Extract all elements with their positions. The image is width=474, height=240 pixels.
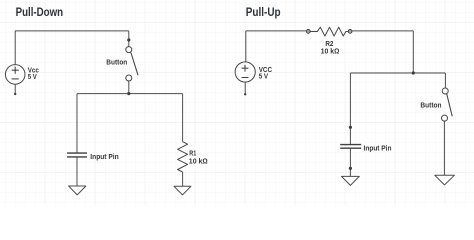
wire V1 bottom stub bbox=[14, 84, 16, 95]
wire top rail to button S1 bbox=[128, 31, 130, 47]
wire button S2 to ground bbox=[443, 121, 445, 175]
wire bus to capacitor C2 bbox=[349, 73, 351, 144]
resistor R2 bbox=[306, 27, 352, 36]
junction dot above C2 bbox=[349, 126, 352, 129]
push button S1 bbox=[126, 47, 138, 81]
capacitor C1 Input Pin bbox=[67, 153, 87, 157]
svg-text:5 V: 5 V bbox=[28, 72, 37, 81]
junction dot on right bus bbox=[412, 71, 415, 74]
junction dot on node bus bbox=[127, 92, 130, 95]
voltage source V1 Vcc bbox=[5, 65, 25, 85]
label Input Pin (right) bbox=[364, 143, 392, 152]
title Pull-Up bbox=[246, 5, 281, 19]
ground (below S2) bbox=[435, 175, 455, 185]
wire V1 to top rail bbox=[14, 31, 16, 65]
capacitor C2 Input Pin bbox=[340, 145, 361, 149]
svg-text:Input Pin: Input Pin bbox=[364, 143, 392, 152]
wire capacitor C1 to ground bbox=[76, 157, 78, 186]
svg-text:10 kΩ: 10 kΩ bbox=[321, 47, 340, 56]
svg-text:Button: Button bbox=[420, 100, 441, 109]
ground (below C1) bbox=[69, 186, 86, 195]
ground (below C2) bbox=[342, 176, 360, 185]
wire bus to button S2 bbox=[444, 73, 446, 88]
label Button (right) bbox=[420, 100, 441, 109]
label R2 10 kOhm bbox=[321, 39, 340, 55]
wire capacitor C2 to ground bbox=[349, 149, 351, 177]
node bus wire right circuit bbox=[350, 72, 445, 74]
svg-text:Pull-Down: Pull-Down bbox=[16, 5, 64, 19]
svg-text:5 V: 5 V bbox=[259, 72, 269, 81]
wire button S1 to node bus bbox=[128, 81, 130, 94]
title Pull-Down bbox=[16, 5, 64, 19]
label VCC 5 V bbox=[259, 65, 273, 80]
junction dot below C2 bbox=[349, 167, 352, 170]
push button S2 bbox=[442, 88, 453, 121]
wire resistor R1 to ground bbox=[182, 172, 184, 186]
node bus wire left circuit bbox=[77, 93, 183, 95]
wire right corner down to bus bbox=[412, 31, 414, 73]
resistor R1 bbox=[178, 142, 188, 172]
junction dot above button S1 bbox=[127, 38, 130, 41]
wire bus to resistor R1 bbox=[182, 94, 184, 142]
svg-text:Pull-Up: Pull-Up bbox=[246, 5, 281, 19]
svg-text:Button: Button bbox=[106, 58, 127, 67]
svg-text:10 kΩ: 10 kΩ bbox=[189, 156, 208, 165]
wire V2 bottom stub bbox=[244, 82, 246, 95]
wire top rail left circuit bbox=[15, 30, 129, 32]
wire bus to capacitor C1 bbox=[76, 94, 78, 153]
svg-text:Input Pin: Input Pin bbox=[90, 152, 118, 161]
label Vcc 5 V bbox=[28, 66, 39, 81]
label Input Pin (left) bbox=[90, 152, 118, 161]
wire V2 to top rail bbox=[245, 31, 247, 62]
label R1 10 kOhm bbox=[189, 149, 208, 166]
label Button (left) bbox=[106, 58, 127, 67]
wire R2 to right corner bbox=[352, 30, 413, 32]
voltage source V2 VCC bbox=[235, 62, 255, 82]
wire top rail V2 to R2 bbox=[246, 30, 307, 32]
ground (below R1) bbox=[174, 186, 191, 195]
